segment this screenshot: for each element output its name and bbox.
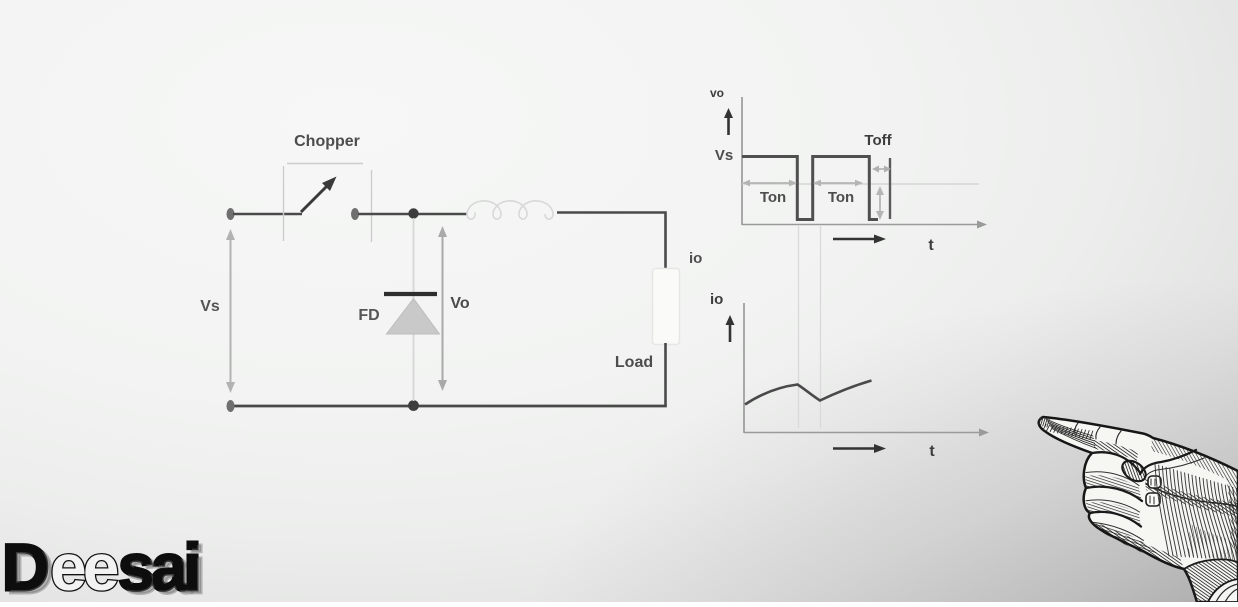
svg-text:Vs: Vs [200, 298, 220, 315]
waveform plot 1: faint average level line [742, 183, 979, 185]
middle finger curl shading [1085, 475, 1142, 502]
logo: Deesai wordmark [2, 530, 198, 604]
cuff stripes [1216, 584, 1238, 602]
reference drop line 2 (Toff boundary) [820, 226, 822, 428]
cuff white band [1208, 579, 1238, 602]
crease stroke under thumb [1146, 484, 1238, 507]
svg-text:io: io [710, 291, 723, 308]
illustration: engraved pointing hand [1039, 417, 1238, 602]
waveform plot 2: io ripple current curve [745, 381, 872, 405]
annotation arrow: time direction (plot 1) [833, 235, 886, 244]
node: switch output terminal [351, 208, 359, 220]
svg-text:Ton: Ton [828, 189, 854, 206]
waveform plot 1: y-axis up arrow [724, 108, 733, 135]
waveform plot 2: x-axis with arrowhead [744, 429, 989, 437]
middle finger curl separation [1092, 452, 1140, 472]
junction: bottom node B (diode anode tap) [408, 400, 419, 411]
thumb outline [1140, 450, 1196, 474]
svg-text:t: t [929, 443, 935, 460]
thumb inner crease [1145, 458, 1204, 477]
waveform plot 1: vo square pulse train [742, 157, 878, 220]
waveform plot 1: Toff edge tick line [889, 158, 891, 219]
svg-text:FD: FD [358, 307, 379, 324]
svg-text:ee: ee [50, 530, 118, 602]
fist bottom dark band [1094, 521, 1184, 569]
wire: inductor to load (top right) [557, 213, 666, 273]
right edge dark strip [1226, 478, 1238, 552]
diode FD cathode bar [384, 292, 437, 296]
wire: diode branch vertical [413, 218, 415, 401]
dimension arrow: Ton first period [742, 180, 797, 187]
waveform plot 2: y-axis up arrow [726, 315, 735, 342]
knuckle nubs [1146, 476, 1161, 506]
svg-text:Toff: Toff [864, 132, 892, 149]
wire: switch to freewheel-diode node [358, 213, 467, 216]
wire: load to bottom rail [664, 343, 667, 406]
index finger underside shading [1046, 419, 1096, 448]
waveform plot 1: y-axis [741, 97, 743, 225]
dark gap between index finger and curled middle finger [1094, 440, 1138, 461]
wire: from source + to chopper switch [233, 213, 302, 216]
junction: top node A (diode cathode tap) [408, 208, 418, 218]
reference drop line 1 (Ton boundary) [798, 226, 800, 428]
dimension arrow: Toff width (small) [872, 166, 891, 173]
node: source positive terminal (top-left) [227, 208, 235, 220]
wire: bottom return rail [233, 405, 667, 408]
svg-text:Ton: Ton [760, 189, 786, 206]
load resistor box [653, 269, 680, 345]
little finger curl shading [1094, 524, 1162, 557]
svg-text:io: io [689, 250, 702, 267]
ring finger curl separation [1086, 487, 1142, 501]
inductor L (hand-drawn coil) [467, 201, 553, 219]
wrist hatch [1184, 559, 1238, 602]
chopper enclosure bracket [284, 164, 372, 243]
svg-text:vo: vo [710, 86, 724, 100]
svg-text:Chopper: Chopper [294, 133, 360, 150]
svg-text:Load: Load [615, 354, 653, 371]
svg-text:Vs: Vs [715, 147, 733, 164]
node: source negative terminal (bottom-left) [227, 400, 235, 412]
index finger knuckle creases [1075, 423, 1121, 444]
thumb nail (dark oval) [1118, 457, 1149, 486]
palm heel shading [1188, 524, 1238, 562]
dorsum shadow band under top edge [1151, 439, 1238, 486]
dimension arrow: Ton second period [813, 180, 863, 187]
switch SW (chopper) blade arrow [301, 177, 337, 213]
ring finger curl shading [1086, 502, 1141, 527]
dimension arrow: Toff vertical extent [876, 186, 884, 220]
waveform plot 1: x-axis with arrowhead [742, 221, 987, 229]
finger tip hatch [1039, 417, 1050, 427]
svg-text:Vo: Vo [450, 295, 469, 312]
thumb-to-fingers dark crease band [1145, 479, 1238, 517]
nub stripes [1150, 479, 1155, 504]
measurement arrow: Vs source voltage [226, 229, 235, 393]
svg-text:D: D [2, 530, 47, 602]
back of hand contour shading strokes [1155, 464, 1238, 561]
hand silhouette [1039, 417, 1238, 602]
svg-text:t: t [928, 237, 934, 254]
little finger curl separation [1090, 512, 1141, 527]
svg-text:sai: sai [118, 530, 198, 602]
diode FD anode triangle [387, 299, 440, 335]
annotation arrow: time direction (plot 2) [833, 444, 886, 453]
measurement arrow: Vo output voltage [438, 226, 447, 391]
waveform plot 2: y-axis [743, 303, 745, 433]
